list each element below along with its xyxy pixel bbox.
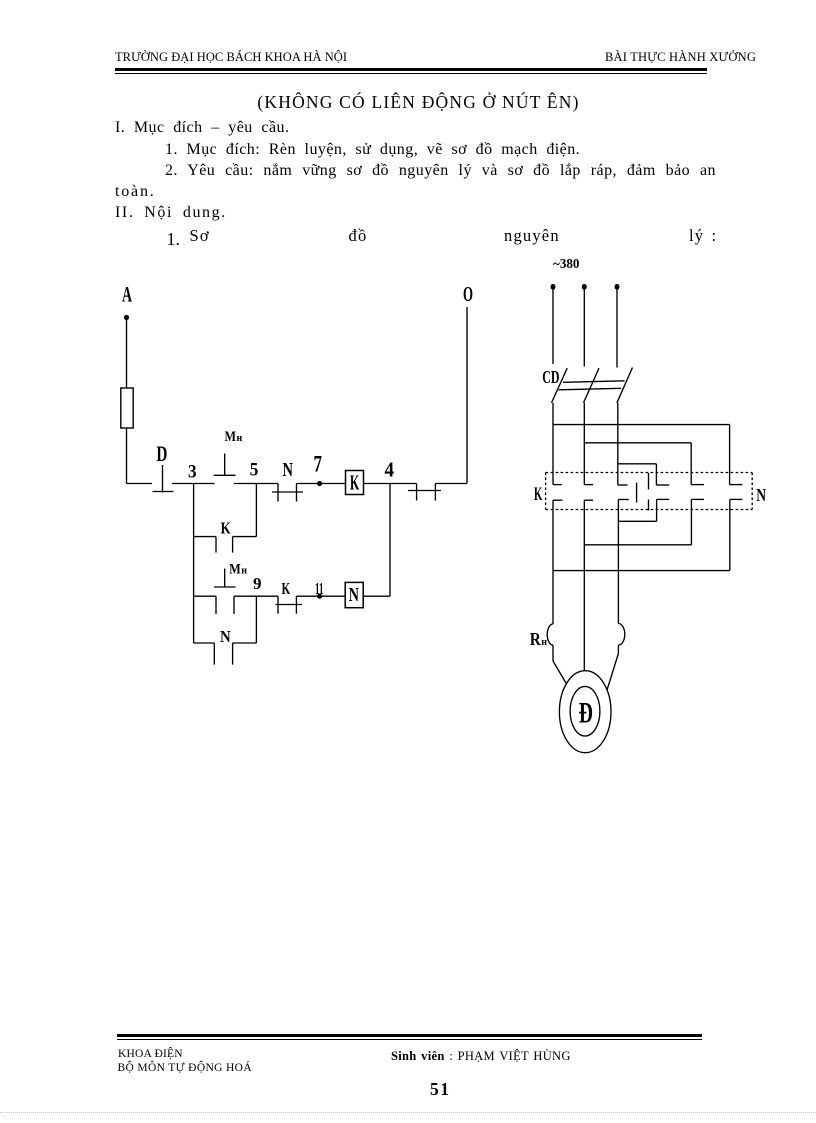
svg-text:N: N (283, 459, 294, 481)
svg-text:Đ: Đ (579, 697, 593, 730)
svg-text:K: K (282, 579, 291, 598)
svg-text:A: A (122, 282, 132, 307)
svg-text:O: O (463, 282, 473, 306)
svg-text:7: 7 (314, 452, 323, 477)
svg-text:5: 5 (250, 460, 259, 481)
svg-text:9: 9 (253, 574, 262, 593)
svg-text:N: N (756, 485, 766, 505)
svg-text:N: N (349, 584, 360, 606)
svg-text:Rн: Rн (530, 629, 548, 649)
svg-text:Mн: Mн (229, 561, 247, 577)
svg-text:K: K (350, 470, 360, 494)
svg-text:N: N (220, 627, 231, 646)
svg-text:11: 11 (315, 579, 324, 598)
svg-text:K: K (221, 519, 232, 538)
svg-text:CD: CD (542, 367, 559, 387)
svg-text:D: D (156, 441, 167, 466)
svg-text:3: 3 (188, 461, 197, 482)
svg-text:~380: ~380 (553, 256, 580, 271)
svg-text:K: K (534, 484, 543, 505)
svg-text:4: 4 (385, 457, 395, 481)
svg-text:Mн: Mн (225, 429, 243, 445)
